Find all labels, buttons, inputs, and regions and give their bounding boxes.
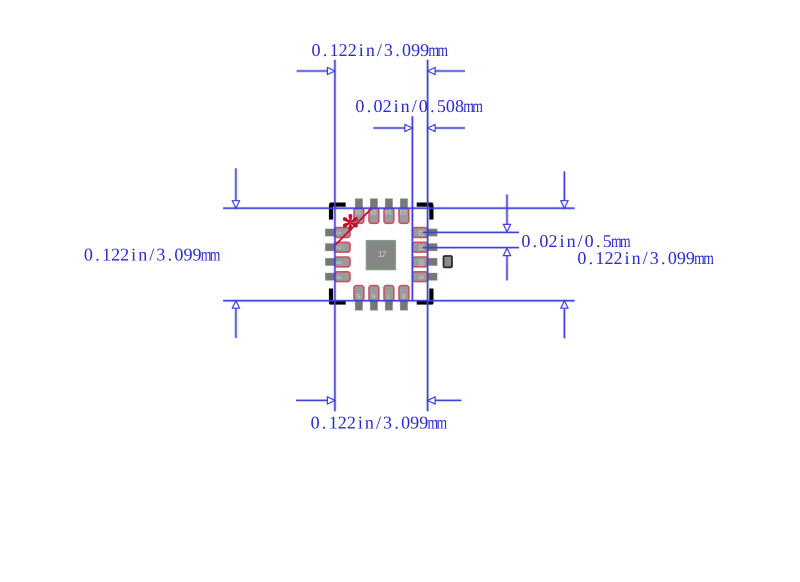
svg-text:m: m [437, 40, 448, 60]
svg-text:m: m [703, 248, 714, 268]
svg-text:0.122in/3.099: 0.122in/3.099 [311, 412, 429, 432]
svg-text:12: 12 [416, 229, 424, 236]
svg-text:0.122in/3.099: 0.122in/3.099 [312, 40, 430, 60]
svg-text:m: m [472, 96, 483, 116]
svg-text:0.122in/3.099: 0.122in/3.099 [577, 248, 695, 268]
svg-text:0.122in/3.099: 0.122in/3.099 [84, 245, 202, 265]
svg-text:5: 5 [357, 291, 361, 299]
svg-text:7: 7 [387, 291, 391, 299]
svg-text:m: m [210, 245, 221, 265]
svg-text:6: 6 [372, 291, 376, 299]
svg-text:17: 17 [378, 250, 387, 260]
svg-text:m: m [437, 412, 448, 432]
svg-text:10: 10 [416, 258, 424, 265]
svg-text:8: 8 [402, 291, 406, 299]
svg-text:11: 11 [416, 244, 424, 251]
svg-text:9: 9 [416, 275, 424, 279]
